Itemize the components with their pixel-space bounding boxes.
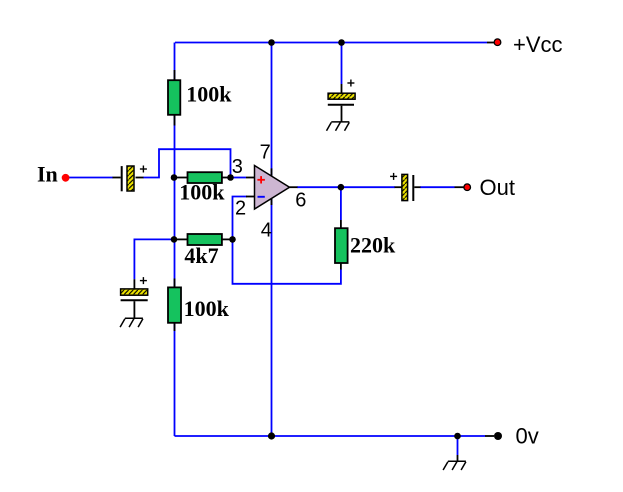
ground below C3 (327, 122, 350, 131)
resistor R2 100k horizontal at pin 3 (176, 177, 188, 179)
wire 220k feedback branch down and left (340, 187, 342, 220)
terminal In red dot (62, 174, 70, 182)
capacitor C4 bias bypass electrolytic (133, 279, 135, 288)
node junction dot top rail / C3 (338, 39, 345, 46)
svg-text:220k: 220k (350, 232, 396, 257)
op-amp plus input marker (257, 176, 265, 183)
svg-text:2: 2 (235, 198, 246, 220)
op-amp minus input marker (258, 196, 265, 198)
node junction dot top rail / supply rail (268, 39, 275, 46)
svg-text:3: 3 (232, 156, 243, 178)
svg-text:Out: Out (480, 175, 515, 200)
resistor R3 4k7 horizontal (176, 238, 188, 240)
wire output of op-amp to node (297, 186, 395, 188)
node junction dot pin3 / R2 right (227, 174, 234, 181)
svg-text:4: 4 (261, 220, 272, 242)
wire 4k7 node to left bypass cap (134, 239, 174, 279)
capacitor C1 input electrolytic (113, 177, 121, 179)
wire output cap to Out terminal (420, 186, 455, 188)
terminal +Vcc red dot (494, 39, 501, 46)
node junction dot bias rail / R2 left (171, 174, 178, 181)
wire top +Vcc rail (175, 42, 487, 44)
wire +Vcc bypass cap branch (341, 43, 343, 85)
ground at 0v rail (457, 455, 459, 461)
wire pin7/pin4 supply rail x=271.5 (271, 43, 273, 177)
svg-text:+Vcc: +Vcc (513, 32, 563, 57)
pin 6 output lead (290, 186, 298, 188)
wire C1 up and over to pin 3 (143, 149, 231, 177)
terminal 0v black dot (494, 432, 502, 440)
resistor R4 100k vertical lower (174, 279, 176, 288)
svg-text:100k: 100k (179, 180, 225, 205)
ground below C4 (120, 318, 143, 327)
pin 2 lead (246, 196, 255, 198)
wire input from In terminal to C1 (68, 177, 113, 179)
pin 7 lead (271, 168, 273, 176)
node junction dot bias rail / 4k7 left (171, 236, 178, 243)
resistor R5 220k vertical (340, 220, 342, 229)
svg-text:In: In (37, 161, 58, 186)
svg-text:0v: 0v (516, 424, 539, 449)
svg-text:100k: 100k (186, 82, 232, 107)
wire black stub to Out terminal (455, 186, 465, 188)
op-amp U1 triangle (255, 166, 290, 210)
wire ground stem near 0v rail (457, 436, 459, 455)
pin 4 lead (271, 198, 273, 205)
wire vertical bias rail x=174 (174, 43, 176, 81)
terminal Out red dot (464, 184, 471, 191)
node junction dot pin2 / 4k7 right / feedback (229, 236, 236, 243)
svg-text:100k: 100k (184, 296, 230, 321)
resistor R1 100k vertical top (174, 70, 176, 80)
wire 0v bottom rail (175, 435, 486, 437)
node junction dot output / 220k (338, 184, 345, 191)
capacitor C2 output electrolytic (395, 186, 402, 188)
wire pin 2 branch (233, 197, 248, 240)
capacitor C3 +Vcc bypass electrolytic (341, 84, 343, 93)
node junction dot 0v rail / supply rail (268, 432, 275, 439)
svg-text:7: 7 (260, 142, 271, 164)
svg-text:6: 6 (295, 189, 306, 211)
wire black stub to 0v terminal (485, 435, 494, 437)
svg-text:4k7: 4k7 (184, 243, 218, 268)
pin 3 lead (231, 177, 247, 179)
wire black stub to +Vcc terminal (487, 42, 495, 44)
node junction dot 0v rail / ground (454, 433, 461, 440)
